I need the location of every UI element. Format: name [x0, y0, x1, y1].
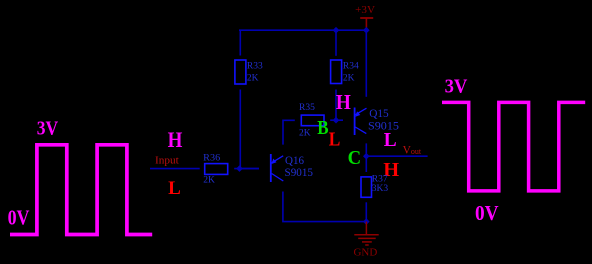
svg-text:S9015: S9015	[285, 167, 314, 179]
junction Q15 base node	[333, 117, 340, 124]
svg-text:0V: 0V	[8, 205, 30, 229]
output waveform	[442, 102, 585, 190]
svg-text:R36: R36	[203, 154, 220, 164]
wire Q15 collector to node C	[365, 143, 367, 156]
svg-text:3V: 3V	[445, 76, 468, 98]
svg-text:3K3: 3K3	[372, 184, 389, 194]
junction input node	[236, 165, 243, 172]
wire input to R36	[150, 168, 200, 170]
svg-text:0V: 0V	[475, 201, 499, 225]
svg-text:2K: 2K	[343, 73, 355, 83]
junction rail / Q15 emitter	[363, 27, 370, 34]
svg-text:+3V: +3V	[355, 5, 375, 16]
wire Vout	[366, 155, 427, 157]
wire R36 to input node	[234, 168, 259, 170]
wire R37 to ground rail	[365, 202, 367, 221]
wire node C to R37	[365, 156, 367, 172]
svg-text:R34: R34	[343, 62, 359, 72]
wire rail to R33	[239, 30, 241, 56]
resistor R33	[235, 60, 246, 84]
ground	[354, 222, 378, 245]
svg-text:R35: R35	[299, 103, 315, 113]
svg-text:3V: 3V	[37, 117, 59, 139]
svg-text:Q15: Q15	[369, 108, 389, 120]
svg-text:L: L	[168, 178, 181, 199]
svg-text:H: H	[336, 90, 351, 114]
svg-text:Q16: Q16	[285, 155, 304, 167]
svg-text:2K: 2K	[247, 73, 259, 83]
svg-text:Input: Input	[155, 155, 179, 166]
resistor R35	[301, 115, 324, 126]
input waveform	[10, 145, 152, 235]
wire Q15 base node stubs	[330, 119, 343, 121]
svg-text:R33: R33	[247, 62, 263, 72]
wire input node to Q16 base	[240, 168, 260, 170]
svg-text:2K: 2K	[203, 175, 215, 185]
svg-text:R37: R37	[372, 174, 388, 184]
junction rail / R34	[333, 27, 340, 34]
wire Q16 collector to ground rail	[283, 192, 366, 222]
transistor Q16	[271, 154, 284, 182]
resistor R34	[331, 60, 342, 84]
wire +3V rail	[239, 29, 366, 31]
wire rail to R34	[335, 30, 337, 56]
svg-text:2K: 2K	[299, 128, 311, 138]
svg-text:C: C	[348, 148, 362, 169]
junction node C	[363, 153, 370, 160]
resistor R37	[361, 177, 372, 197]
svg-text:H: H	[168, 127, 183, 152]
resistor R36	[205, 164, 228, 175]
svg-text:Vout: Vout	[403, 144, 422, 156]
transistor Q15	[355, 108, 367, 136]
wire Q16 emitter to R35	[283, 120, 295, 144]
power +3V	[355, 5, 375, 30]
wire R34 to Q15 base node	[335, 90, 337, 121]
svg-text:B: B	[317, 117, 328, 139]
wire R33 to input node	[239, 90, 241, 169]
svg-text:GND: GND	[354, 247, 378, 258]
junction ground rail / R37	[363, 218, 370, 225]
svg-text:L: L	[329, 129, 341, 151]
svg-text:L: L	[384, 129, 397, 151]
wire Q15 emitter to +3V rail	[365, 30, 367, 97]
